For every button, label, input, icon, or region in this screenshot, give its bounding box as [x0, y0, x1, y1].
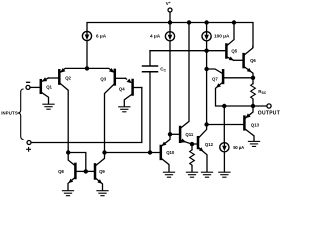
node RSC bottom [251, 104, 255, 108]
transistor Q5 [226, 23, 234, 61]
ground Q12 emitter [201, 172, 212, 177]
wire 100uA to Q5 base node [206, 41, 208, 51]
svg-text:Q8: Q8 [58, 169, 64, 174]
INPUTS label [1, 111, 18, 116]
minus sign [27, 81, 30, 83]
Q1 label [46, 85, 52, 90]
node Q13 base junction [204, 122, 208, 126]
Q8 label [58, 169, 64, 174]
svg-text:RSC: RSC [258, 89, 267, 95]
wire 6uA to input tail [86, 41, 88, 69]
Q4 label [119, 86, 125, 91]
Q9 label [99, 169, 105, 174]
transistor Q6 [234, 46, 253, 77]
ground Q13 collector [248, 141, 259, 146]
node 50uA tap [222, 104, 226, 108]
Q12 label [205, 142, 214, 147]
svg-text:Q11: Q11 [185, 132, 193, 137]
node Q2/Q8 collectors [66, 150, 70, 154]
node Q6 emitter RSC top [251, 76, 255, 80]
transistor Q10 [161, 134, 170, 171]
svg-text:Q7: Q7 [212, 77, 218, 82]
ground Q10 collector [163, 172, 174, 177]
inverting input terminal [26, 85, 30, 89]
ground Q8 emitter [62, 191, 73, 196]
svg-text:Q10: Q10 [166, 150, 175, 155]
capacitor Cc [143, 51, 158, 153]
svg-text:CC: CC [160, 67, 166, 73]
non-inverting input terminal [27, 141, 31, 145]
wire 4uA to Q10/Q11 node [169, 41, 171, 134]
node Q11 emitter junction [190, 142, 194, 146]
svg-text:Q4: Q4 [119, 86, 125, 91]
node rail-Q5 junction [232, 20, 236, 24]
svg-text:Q6: Q6 [250, 58, 256, 63]
6uA value label [96, 34, 107, 39]
Q7 label [212, 77, 218, 82]
ground 50uA [219, 172, 230, 177]
Q11 label [185, 132, 193, 137]
current source 50uA [220, 106, 229, 171]
transistor Q12 [192, 125, 207, 172]
transistor Q7 [207, 69, 253, 106]
current source 6uA [82, 31, 91, 40]
svg-text:4 μA: 4 μA [150, 34, 161, 39]
transistor Q9 [86, 153, 105, 190]
Q6 label [250, 58, 256, 63]
4uA value label [150, 34, 161, 39]
node Q10 emitter Q11 base [168, 132, 172, 136]
transistor Q1 [30, 77, 48, 103]
svg-text:Q3: Q3 [100, 76, 106, 81]
node rail-100uA junction [204, 20, 208, 24]
wire plus input to Q4 base [31, 88, 142, 143]
node Q7 collector tap [204, 67, 208, 71]
output terminal [267, 104, 271, 108]
svg-text:Q13: Q13 [251, 123, 260, 128]
svg-text:Q1: Q1 [46, 85, 52, 90]
wire output node [224, 105, 267, 107]
50uA value label [233, 145, 244, 150]
transistor Q8 [68, 153, 86, 190]
ground Q4 collector [119, 107, 130, 112]
V+ label [166, 1, 171, 6]
node rail-Q11 junction [187, 20, 191, 24]
node Q3/Q9 collectors [102, 150, 106, 154]
node 100uA junction [204, 49, 208, 53]
wire node A to Q10 base [105, 152, 161, 154]
transistor Q3 [105, 68, 126, 153]
current source 4uA [165, 23, 174, 41]
svg-text:Q9: Q9 [99, 169, 105, 174]
transistor Q4 [124, 78, 142, 106]
Q2 label [65, 76, 71, 81]
RSC label [258, 89, 267, 95]
Q5 label [231, 48, 237, 53]
OUTPUT label [258, 110, 280, 116]
ground resistor [186, 172, 197, 177]
svg-text:OUTPUT: OUTPUT [258, 110, 280, 116]
wire V+ rail [87, 23, 253, 48]
V+ terminal [168, 8, 172, 22]
100uA value label [214, 34, 230, 39]
wire 100uA node to Q13 base node [206, 51, 208, 125]
Q13 label [251, 123, 260, 128]
resistor Q13 bias [190, 144, 195, 171]
wire Q5 base line [150, 50, 226, 52]
svg-text:INPUTS: INPUTS [1, 111, 18, 116]
transistor Q11 [170, 23, 192, 145]
resistor RSC [251, 78, 256, 106]
transistor Q13 [207, 106, 254, 141]
svg-text:Q5: Q5 [231, 48, 237, 53]
svg-text:50 μA: 50 μA [233, 145, 244, 150]
ground Q9 emitter [97, 191, 108, 196]
svg-text:V+: V+ [166, 1, 171, 6]
svg-text:6 μA: 6 μA [96, 34, 107, 39]
node input tail junction [85, 66, 89, 70]
node Q8/Q9 base tie [84, 169, 88, 173]
wire Q8 collector-base tie [68, 153, 86, 172]
svg-text:100 μA: 100 μA [214, 34, 230, 39]
svg-text:Q2: Q2 [65, 76, 71, 81]
svg-text:Q12: Q12 [205, 142, 214, 147]
Q3 label [100, 76, 106, 81]
Q10 label [166, 150, 175, 155]
current source 100uA [202, 23, 211, 41]
node rail-V+ junction [168, 20, 172, 24]
node Cc tap [148, 150, 152, 154]
wire tail to Q2 emitter [61, 68, 87, 71]
transistor Q2 [48, 68, 68, 153]
inputs brace [18, 89, 23, 140]
plus sign [27, 147, 31, 151]
Cc label [160, 67, 166, 73]
ground Q1 collector [43, 104, 54, 109]
wire tail to Q3 emitter [87, 68, 114, 72]
